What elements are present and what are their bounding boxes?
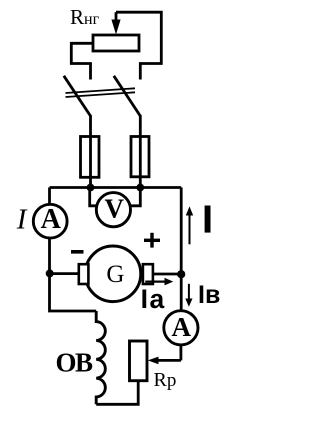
svg-text:ОВ: ОВ <box>56 348 94 378</box>
wire: Rp bottom <box>96 381 138 405</box>
wire: right blade to right fuse <box>139 115 142 138</box>
brush left <box>79 264 89 284</box>
wire: left stub to voltmeter <box>90 188 97 206</box>
wire: right branch vertical <box>180 188 183 311</box>
svg-text:G: G <box>106 261 124 288</box>
voltmeter V <box>96 193 130 227</box>
node under fuse F1 <box>87 184 95 192</box>
arrow Iv down <box>185 284 192 307</box>
svg-text:I: I <box>16 203 28 235</box>
rheostat Rp body <box>130 341 148 381</box>
field winding OB (inductor) <box>96 311 105 404</box>
wire: ammeter A1 down the left side to field winding <box>50 238 97 311</box>
wire: bus to ammeter A1 <box>48 188 51 206</box>
wire: left blade to left fuse <box>89 115 92 138</box>
plus sign <box>144 233 160 248</box>
wire: right stub to voltmeter <box>130 188 140 206</box>
switch S1 right blade <box>114 76 141 116</box>
fuse F1 <box>81 137 100 188</box>
svg-text:V: V <box>104 194 124 224</box>
arrow I up <box>186 206 193 244</box>
ammeter A1 <box>33 204 67 238</box>
svg-text:Rр: Rр <box>154 369 177 391</box>
node A1/armature junction <box>46 269 54 277</box>
node right branch / armature <box>177 270 185 278</box>
wire: right brush to right branch <box>153 273 181 276</box>
switch S1 left blade <box>64 76 91 116</box>
arrow Ia <box>145 278 173 286</box>
wire: wiper to switch right pole <box>116 12 161 79</box>
wire: ammeter A2 down <box>179 345 182 361</box>
brush right <box>143 264 153 284</box>
svg-text:Iв: Iв <box>198 281 220 309</box>
fuse F2 <box>131 137 149 188</box>
wire: bus <box>50 186 182 189</box>
svg-text:A: A <box>171 312 191 342</box>
switch S1 link bar <box>66 88 136 97</box>
svg-text:A: A <box>41 204 62 235</box>
rheostat Rnг body <box>93 35 139 51</box>
wire: Rnг left end to switch left pole <box>71 43 93 79</box>
generator G <box>85 246 141 302</box>
minus sign <box>71 250 84 254</box>
ammeter A2 <box>164 311 198 345</box>
label I bold bar <box>205 206 211 233</box>
rheostat Rnг wiper arrow <box>111 12 120 34</box>
wire: junction to left brush <box>50 272 80 275</box>
arrow to Rp wiper <box>148 357 181 365</box>
node under fuse F2 <box>136 184 144 192</box>
svg-text:Iа: Iа <box>141 284 166 314</box>
